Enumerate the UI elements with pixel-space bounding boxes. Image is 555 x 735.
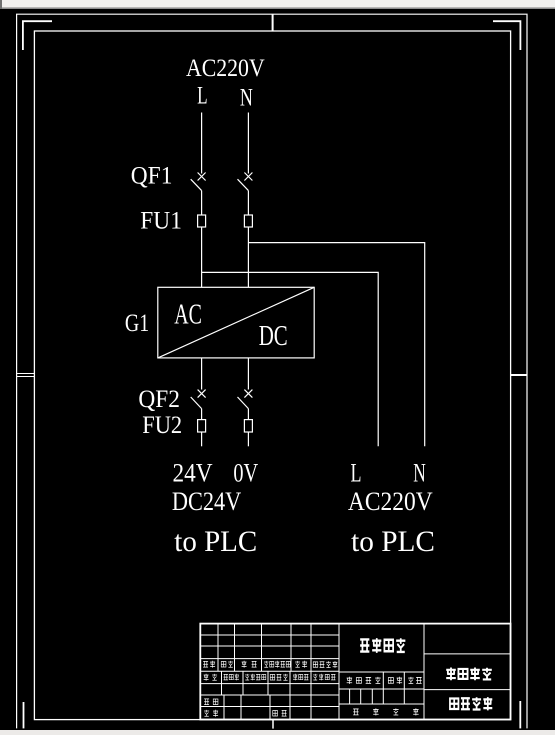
wire L top	[201, 113, 203, 174]
title block small row: gongyi / pizhun	[204, 710, 286, 717]
svg-text:24V: 24V	[173, 459, 213, 488]
svg-text:L: L	[197, 82, 208, 109]
svg-text:L: L	[351, 459, 362, 488]
window top bar	[0, 0, 555, 8]
svg-text:AC220V: AC220V	[186, 55, 265, 82]
wire N top	[247, 113, 249, 174]
svg-text:FU1: FU1	[140, 208, 182, 235]
label tuyang daihao (drawing code)	[450, 697, 492, 710]
wire L to G1	[201, 227, 203, 287]
fuse FU1 pole L	[198, 215, 206, 227]
svg-text:N: N	[240, 84, 253, 111]
title block small row: gong zhang di zhang	[353, 708, 418, 715]
breaker QF2 pole 0V	[238, 390, 253, 409]
wire 24V stub	[201, 432, 203, 446]
title block small row: shenhe	[204, 699, 218, 705]
wire 24V below G1	[201, 358, 203, 390]
power supply G1 diagonal	[158, 287, 314, 358]
breaker QF1 pole N	[238, 173, 253, 191]
wire N to G1	[247, 227, 249, 287]
svg-text:DC: DC	[259, 321, 288, 352]
wire 0V below G1	[247, 358, 249, 390]
title block small row: jieduan biaoji zhiliang bili	[347, 677, 422, 684]
wire L branch to PLC	[202, 272, 379, 446]
wire N mid	[247, 191, 249, 215]
svg-text:QF2: QF2	[138, 386, 180, 413]
svg-text:0V: 0V	[233, 459, 258, 488]
svg-text:AC220V: AC220V	[348, 487, 433, 516]
svg-text:G1: G1	[125, 310, 149, 337]
wire 24V	[201, 409, 203, 420]
label cailiao biaoji (material marking)	[360, 638, 405, 653]
svg-text:AC: AC	[174, 300, 202, 331]
window bottom bar	[0, 730, 555, 735]
svg-text:FU2: FU2	[142, 412, 182, 439]
svg-text:N: N	[413, 459, 426, 488]
label dianyuan dianlu (power circuit)	[446, 668, 492, 681]
fuse FU1 pole N	[244, 215, 252, 227]
power supply G1 box	[158, 287, 314, 358]
fuse FU2 pole 0V	[244, 420, 252, 432]
breaker QF2 pole 24V	[191, 390, 206, 409]
wire 0V stub	[247, 432, 249, 446]
wire N branch to PLC	[248, 243, 424, 447]
svg-text:QF1: QF1	[131, 163, 173, 190]
title block small row: biaoji chushu fenqu genggai wenjianhao qianming nianyueri	[203, 661, 337, 668]
svg-text:to PLC: to PLC	[351, 525, 435, 558]
breaker QF1 pole L	[191, 173, 206, 191]
wire L mid	[201, 191, 203, 215]
svg-text:to PLC: to PLC	[174, 525, 257, 558]
svg-text:DC24V: DC24V	[172, 487, 242, 516]
title block small row: sheji (qianming) (nianyueri) biaozhunhua	[204, 674, 336, 681]
wire 0V	[247, 409, 249, 420]
fuse FU2 pole 24V	[198, 420, 206, 432]
title block grid	[200, 624, 510, 720]
